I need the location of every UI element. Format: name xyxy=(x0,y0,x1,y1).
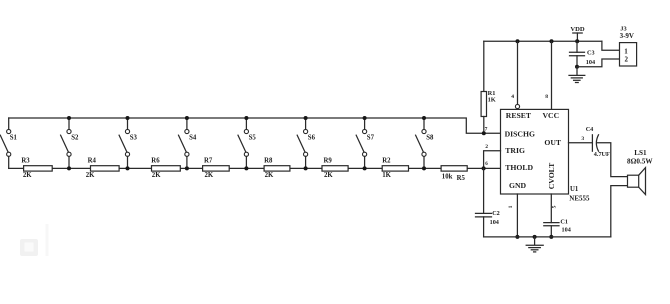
svg-text:OUT: OUT xyxy=(544,138,562,147)
switch S2 xyxy=(61,116,79,170)
resistor R4 xyxy=(86,157,119,179)
svg-text:8Ω0.5W: 8Ω0.5W xyxy=(627,158,653,166)
svg-text:C2: C2 xyxy=(492,210,500,217)
svg-text:U1: U1 xyxy=(570,186,579,193)
op-amp U1 NE555 body xyxy=(501,109,569,194)
wire J3 pin1 xyxy=(602,41,620,50)
capacitor C3 104 xyxy=(570,41,596,69)
svg-text:S2: S2 xyxy=(71,135,79,142)
wire GND pin 1 xyxy=(508,194,519,239)
capacitor C2 104 xyxy=(476,168,500,237)
switch S5 xyxy=(238,116,256,170)
svg-text:NE555: NE555 xyxy=(569,194,590,202)
svg-text:2K: 2K xyxy=(86,172,95,179)
svg-text:R3: R3 xyxy=(21,157,30,164)
svg-text:C1: C1 xyxy=(560,219,568,226)
ground (main) xyxy=(526,235,543,252)
svg-text:S4: S4 xyxy=(189,135,197,142)
wire TRIG pin 2 xyxy=(484,144,501,168)
svg-text:2: 2 xyxy=(485,144,488,150)
resistor R3 xyxy=(21,157,52,179)
svg-text:7: 7 xyxy=(485,127,488,133)
power VDD symbol xyxy=(570,26,585,44)
svg-text:3-9V: 3-9V xyxy=(620,32,634,40)
svg-text:2K: 2K xyxy=(265,172,274,179)
svg-text:R8: R8 xyxy=(264,157,273,164)
svg-text:R9: R9 xyxy=(324,157,333,164)
svg-text:1: 1 xyxy=(508,205,514,208)
svg-text:S5: S5 xyxy=(249,135,257,142)
svg-text:104: 104 xyxy=(586,59,595,66)
wire top bus rail xyxy=(9,118,501,133)
node pin7 junction xyxy=(482,127,488,136)
wire VCC pin 8 xyxy=(545,39,553,109)
resistor R6 xyxy=(151,157,180,179)
svg-text:1K: 1K xyxy=(382,172,391,179)
svg-text:C4: C4 xyxy=(586,126,594,133)
wire RESET pin 4 xyxy=(511,39,519,108)
connector J3 3-9V xyxy=(620,25,637,66)
svg-text:S1: S1 xyxy=(10,135,18,142)
svg-text:5: 5 xyxy=(552,205,558,208)
U1 designator xyxy=(569,186,590,202)
svg-text:S3: S3 xyxy=(130,135,138,142)
svg-text:VDD: VDD xyxy=(570,26,585,33)
node THOLD pin 6 junction xyxy=(482,162,489,170)
svg-text:104: 104 xyxy=(562,226,571,233)
svg-text:CVOLT: CVOLT xyxy=(547,162,556,189)
svg-text:R5: R5 xyxy=(457,175,466,182)
wire ground rail xyxy=(484,236,611,238)
svg-text:RESET: RESET xyxy=(506,111,532,120)
switch S7 xyxy=(356,116,374,170)
watermark blob (faint) xyxy=(20,224,49,256)
svg-text:104: 104 xyxy=(490,219,499,226)
capacitor C4 4.7UF xyxy=(586,126,610,158)
resistor R2 xyxy=(382,157,408,179)
svg-text:DISCHG: DISCHG xyxy=(505,129,535,138)
svg-text:3: 3 xyxy=(581,136,584,142)
svg-text:4: 4 xyxy=(511,94,514,100)
svg-text:S6: S6 xyxy=(308,135,316,142)
svg-text:VCC: VCC xyxy=(543,111,560,120)
svg-text:10k: 10k xyxy=(442,173,453,180)
switch S8 xyxy=(416,116,434,170)
svg-text:1K: 1K xyxy=(488,97,496,104)
svg-text:S7: S7 xyxy=(367,135,375,142)
resistor R7 xyxy=(203,157,230,179)
svg-text:THOLD: THOLD xyxy=(505,163,533,172)
switch S4 xyxy=(179,116,197,170)
wire VDD rail xyxy=(484,40,602,42)
switch S1 xyxy=(0,118,17,168)
svg-text:LS1: LS1 xyxy=(634,149,647,157)
svg-text:2K: 2K xyxy=(324,172,333,179)
resistor R1 xyxy=(481,41,496,133)
svg-text:R4: R4 xyxy=(88,157,97,164)
svg-text:S8: S8 xyxy=(426,135,434,142)
switch S6 xyxy=(297,116,315,170)
svg-text:R2: R2 xyxy=(382,157,391,164)
resistor R8 xyxy=(264,157,290,179)
svg-text:R6: R6 xyxy=(151,157,160,164)
wire OUT to speaker xyxy=(597,143,627,177)
svg-text:2K: 2K xyxy=(205,172,214,179)
svg-text:2K: 2K xyxy=(152,172,161,179)
wire bottom bus rail to THOLD xyxy=(9,167,501,169)
wire OUT pin 3 xyxy=(569,136,593,143)
resistor R5 xyxy=(441,166,467,182)
resistor R9 xyxy=(322,157,348,179)
speaker LS1 xyxy=(627,149,653,194)
svg-text:2: 2 xyxy=(624,56,628,64)
svg-text:1: 1 xyxy=(624,48,628,56)
svg-text:2K: 2K xyxy=(23,172,32,179)
ground (VDD filter) xyxy=(569,67,585,83)
svg-text:8: 8 xyxy=(545,94,548,100)
svg-text:TRIG: TRIG xyxy=(505,146,525,155)
svg-text:R7: R7 xyxy=(204,157,213,164)
wire speaker return xyxy=(611,186,628,237)
svg-text:C3: C3 xyxy=(587,49,595,56)
svg-text:GND: GND xyxy=(509,181,527,190)
wire J3 pin2 xyxy=(577,59,620,67)
capacitor C1 104 on CVOLT pin 5 xyxy=(544,194,571,239)
switch S3 xyxy=(119,116,137,170)
svg-text:4.7UF: 4.7UF xyxy=(594,151,610,158)
